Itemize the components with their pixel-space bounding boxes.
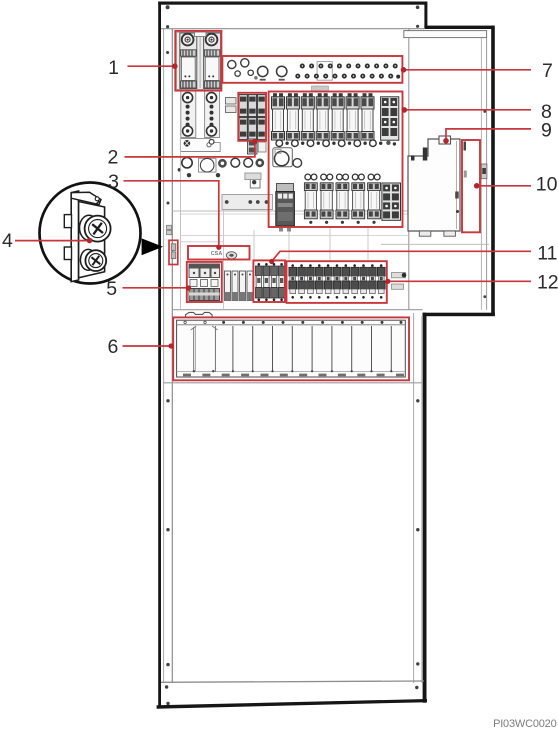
detail arrow [142, 238, 163, 255]
box7 signal jack row top [300, 64, 398, 69]
DC breaker group (box 11 interior, 4 columns) [256, 263, 285, 301]
fuse column left (below box 1) [181, 91, 196, 138]
PSU subrack panel (box 6 interior) [177, 320, 406, 377]
terminal group (box 5 interior) [189, 264, 220, 301]
DC breaker bank (box 12 interior, 11 columns) [289, 264, 385, 298]
inner panel seam right (top section) [408, 29, 410, 310]
svg-text:CSA: CSA [211, 251, 223, 257]
leader line 4 [15, 240, 90, 242]
svg-text:9: 9 [541, 120, 552, 142]
leader line 11 [272, 251, 532, 261]
label under box 7 [312, 86, 329, 91]
leader line 8 [404, 109, 531, 111]
callout box 11 [253, 260, 285, 302]
terminal stack right of relays (box 8 upper right) [381, 97, 399, 140]
svg-text:7: 7 [542, 60, 553, 82]
box7 signal jack row bottom [295, 74, 400, 79]
cabinet top border [158, 2, 427, 5]
oval connector (box 3 interior) [226, 252, 236, 259]
leader line 7 [403, 69, 531, 71]
leader dot 12 [385, 279, 390, 284]
frame screws right column [415, 6, 486, 690]
leader line 9 [446, 129, 531, 141]
terminal stack (box 8 lower right) [382, 183, 401, 220]
backplane seams [172, 210, 408, 212]
small breaker (under box 2) [248, 139, 267, 154]
leader line 10 [477, 185, 532, 187]
connector panel circles (box 7 interior) [228, 59, 333, 81]
callout box 10 [462, 140, 480, 232]
backplane circle row (left-middle) [178, 158, 265, 178]
svg-text:5: 5 [106, 278, 117, 300]
bracket front plate [79, 202, 105, 278]
leader line 6 [123, 345, 172, 347]
callout box 7 [222, 56, 402, 83]
PSU slot labels [183, 374, 404, 377]
leader line 3 [124, 181, 219, 247]
leader dot 1 [172, 63, 178, 69]
leader line 2 [125, 142, 255, 157]
relay module row (box 8 lower, 5 modules) [304, 174, 380, 224]
bracket tab upper [64, 215, 71, 228]
DIN terminal strip (between box 5 and 11) [225, 271, 254, 301]
socket circles row under relays [276, 140, 396, 147]
small ring [209, 139, 214, 144]
magnifier circle [40, 183, 141, 284]
leader dot 11 [269, 259, 274, 264]
leader line 1 [128, 65, 176, 67]
leader dot 5 [186, 285, 191, 290]
right side seam line A [480, 38, 482, 310]
seam above PSU panel [172, 309, 422, 311]
mounting plate with big circle (inside box 8) [273, 148, 302, 167]
terminal block group (box 2 interior) 3x2 [239, 95, 266, 140]
svg-text:11: 11 [537, 242, 557, 264]
top seam horizontal [161, 28, 425, 30]
bracket tab lower [64, 247, 71, 260]
svg-text:1: 1 [108, 57, 119, 79]
slot dividers [233, 326, 391, 372]
screw lower head [85, 250, 106, 271]
relay row (box 8 upper, 7 relays) [272, 93, 375, 140]
frame clip component (left frame) [167, 225, 172, 229]
DIN rail segment [222, 195, 273, 210]
callout box 8 [269, 92, 403, 228]
cabinet top-right step vertical [424, 2, 427, 29]
cabinet bottom border (slightly slanted) [157, 699, 427, 709]
screw star [184, 140, 191, 147]
top tab between breakers [195, 32, 207, 37]
svg-text:6: 6 [107, 336, 118, 358]
panel connectors pair (right of box 1) [226, 98, 237, 105]
leader dot 4 [87, 238, 93, 244]
notched plate [180, 139, 220, 152]
screw upper washer [80, 215, 99, 240]
leader dot 2 [252, 139, 257, 144]
connectors right of box 12 [392, 273, 406, 278]
leader line 5 [123, 287, 189, 289]
callout box 3 [188, 246, 250, 260]
detail target box contents [171, 244, 176, 251]
cabinet right outer border [491, 26, 495, 316]
leader dot 6 [168, 343, 173, 348]
leader line 12 [388, 280, 531, 282]
slot screws [222, 321, 402, 324]
callout box 5 [187, 262, 222, 302]
leader dot 3 [216, 245, 221, 250]
fuse column right (below box 1) [205, 91, 220, 138]
leader dot 8 [402, 107, 408, 113]
leader dot 10 [474, 183, 480, 189]
connector strip + bracket [245, 173, 261, 180]
top-right thin panel [404, 31, 487, 38]
detail target box (bracket location) [169, 240, 178, 264]
monitoring module MU (white, right side) [408, 136, 460, 236]
bracket fold line [81, 201, 100, 219]
seam below PSU panel [164, 382, 422, 384]
callout box 1 [175, 31, 221, 91]
svg-text:PI03WC0020: PI03WC0020 [493, 718, 557, 730]
cabinet step top horizontal [424, 26, 494, 29]
inner frame line left B [171, 29, 173, 683]
cabinet left border [158, 2, 161, 707]
contactor block (box 8 lower left) [276, 184, 295, 232]
marks inside box 10 [464, 142, 467, 151]
leader dot 7 [401, 67, 407, 73]
breaker QF1 (left unit in box 1) [180, 33, 197, 89]
bracket top flange [71, 192, 101, 204]
inner frame line right A (bottom section) [413, 313, 415, 683]
leader dot 9 [443, 138, 449, 144]
right side seam line B [486, 38, 488, 310]
svg-text:3: 3 [108, 171, 119, 193]
box 1 interior backdrop [177, 32, 221, 89]
callout box 12 [287, 261, 387, 303]
breaker QF2 (right unit in box 1) [204, 33, 221, 89]
screw lower washer [80, 249, 96, 270]
bracket side plate [71, 191, 78, 282]
svg-text:10: 10 [536, 174, 558, 196]
callout box 2 [238, 93, 266, 141]
svg-text:12: 12 [537, 272, 558, 294]
cabinet lower right border [423, 313, 427, 703]
blank cover plates (slots 1-2) [184, 321, 186, 323]
frame screws left column [165, 5, 170, 705]
seam below module [381, 243, 489, 245]
callout box 6 [173, 317, 409, 380]
inner frame line right B (bottom section) [421, 316, 423, 683]
svg-text:2: 2 [107, 147, 118, 169]
screw upper head [85, 216, 111, 242]
svg-text:4: 4 [2, 230, 13, 252]
handle bracket above PSU panel [186, 312, 213, 317]
connector right of box 10 [481, 164, 487, 179]
cabinet step bottom horizontal [423, 313, 495, 317]
bottom seam [161, 681, 424, 682]
inner frame line left A [163, 29, 165, 683]
